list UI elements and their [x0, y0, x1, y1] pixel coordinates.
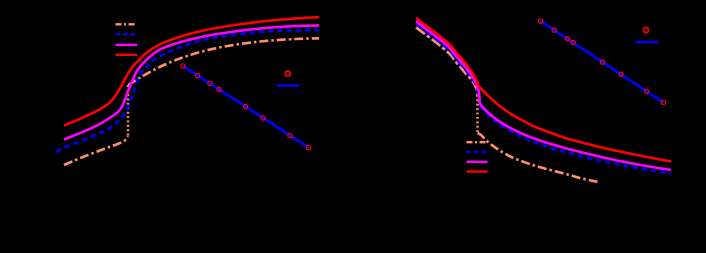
left inset legend blue line — [277, 84, 299, 87]
left panel blue dashed curve — [57, 30, 320, 152]
right panel blue dashed curve tail segment — [480, 106, 671, 173]
left panel orange dotted vertical jump line — [127, 85, 130, 136]
right inset legend blue line — [635, 41, 658, 44]
left panel red solid curve — [64, 17, 319, 125]
left panel orange dash-dot curve lower branch — [64, 136, 128, 165]
left panel magenta solid curve — [64, 25, 319, 139]
left inset blue fit line — [183, 66, 309, 148]
right panel red solid curve — [416, 18, 671, 162]
left panel orange dash-dot curve upper branch — [128, 38, 319, 85]
right panel magenta solid curve — [416, 21, 671, 170]
right inset legend red circle marker — [643, 27, 648, 32]
right legend orange dash-dot line — [467, 141, 488, 143]
right inset red data circles — [538, 19, 665, 105]
right legend magenta solid line — [467, 161, 488, 163]
right panel orange dotted vertical jump line — [476, 95, 479, 133]
right panel orange dash-dot curve upper branch — [416, 28, 478, 96]
left inset legend red circle marker — [285, 71, 290, 76]
left legend red solid line — [116, 54, 138, 56]
left inset red data circles — [181, 64, 311, 150]
left legend blue dashed line — [116, 33, 138, 35]
right legend blue dashed line — [467, 151, 488, 153]
right inset blue fit line — [541, 21, 664, 103]
right panel blue dashed curve steep segment — [416, 24, 480, 106]
left legend magenta solid line — [116, 44, 138, 46]
right panel orange dash-dot curve lower branch — [478, 133, 599, 182]
left legend orange dash-dot line — [116, 23, 138, 25]
right legend red solid line — [467, 170, 488, 172]
